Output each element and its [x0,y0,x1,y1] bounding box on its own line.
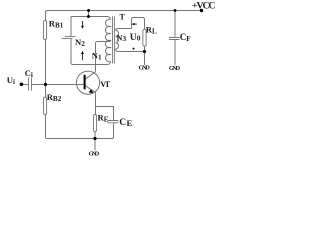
svg-text:GND: GND [139,65,151,72]
svg-text:U0: U0 [130,32,141,43]
svg-text:GND: GND [169,65,181,72]
svg-text:+VCC: +VCC [192,1,216,12]
svg-text:N3: N3 [116,33,126,43]
svg-text:VT: VT [100,80,110,89]
svg-text:GND: GND [89,151,100,158]
svg-text:Ci: Ci [25,69,33,79]
svg-text:T: T [120,13,126,22]
svg-text:CE: CE [119,117,132,128]
